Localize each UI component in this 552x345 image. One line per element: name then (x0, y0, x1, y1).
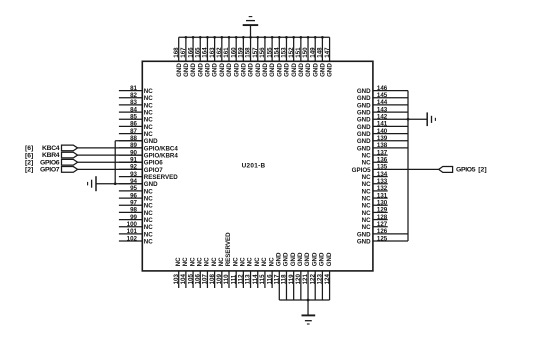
svg-text:GND: GND (190, 63, 197, 77)
wire: GPIO6 to pin 91 (78, 161, 143, 163)
junction on top bus at pin 164 (206, 36, 209, 39)
svg-text:GPIO6: GPIO6 (144, 160, 163, 167)
svg-text:148: 148 (317, 47, 324, 58)
svg-text:113: 113 (245, 274, 252, 285)
svg-text:GND: GND (205, 63, 212, 77)
svg-text:GND: GND (357, 231, 371, 238)
svg-text:160: 160 (230, 47, 237, 58)
svg-text:85: 85 (130, 114, 137, 121)
svg-text:NC: NC (175, 257, 182, 266)
svg-text:123: 123 (317, 274, 324, 285)
pin 84 (NC) left (119, 106, 153, 116)
svg-text:KBC4: KBC4 (42, 145, 60, 152)
svg-text:GND: GND (357, 117, 371, 124)
svg-text:[6]: [6] (25, 152, 33, 159)
svg-text:132: 132 (377, 185, 388, 192)
pin 166 (GND) top (187, 37, 197, 77)
svg-text:GND: GND (276, 63, 283, 77)
svg-text:165: 165 (194, 47, 201, 58)
pin 167 (GND) top (180, 37, 190, 77)
svg-text:108: 108 (209, 274, 216, 285)
svg-text:87: 87 (130, 128, 137, 135)
svg-text:120: 120 (295, 274, 302, 285)
svg-text:140: 140 (377, 128, 388, 135)
svg-text:GND: GND (319, 252, 326, 266)
pin 152 (GND) top (288, 37, 298, 77)
svg-text:124: 124 (324, 274, 331, 285)
pin 96 (NC) left (119, 192, 153, 202)
svg-text:95: 95 (130, 185, 137, 192)
svg-text:NC: NC (144, 95, 153, 102)
wire: top GND bus (179, 36, 330, 38)
svg-text:146: 146 (377, 85, 388, 92)
svg-text:125: 125 (377, 235, 388, 242)
wire: right bus to ground (408, 118, 427, 120)
pin 139 (GND) right (357, 135, 408, 145)
pin 116 (NC) bottom (266, 257, 275, 288)
off-page connector KBR4 (62, 152, 78, 158)
junction on top bus at pin 160 (235, 36, 238, 39)
pin 155 (GND) top (266, 37, 276, 77)
pin 126 (GND) right (357, 228, 408, 238)
pin 108 (NC) bottom (209, 257, 218, 288)
svg-text:GND: GND (262, 63, 269, 77)
pin 130 (NC) right (362, 200, 388, 210)
svg-text:GND: GND (290, 252, 297, 266)
pin 107 (NC) bottom (202, 257, 211, 288)
wire: KBR4 to pin 90 (78, 154, 143, 156)
svg-text:U201-B: U201-B (242, 163, 266, 170)
pin 115 (NC) bottom (259, 257, 268, 288)
svg-text:NC: NC (144, 203, 153, 210)
pin 159 (GND) top (238, 37, 248, 77)
svg-text:82: 82 (130, 92, 137, 99)
svg-text:GND: GND (320, 63, 327, 77)
svg-text:159: 159 (238, 47, 245, 58)
svg-text:GND: GND (284, 63, 291, 77)
pin 111 (NC) bottom (230, 257, 239, 288)
svg-text:GND: GND (183, 63, 190, 77)
pin 147 (GND) top (324, 37, 334, 77)
wire: KBC4 to pin 89 (78, 147, 143, 149)
svg-text:157: 157 (252, 47, 259, 58)
svg-text:156: 156 (259, 47, 266, 58)
svg-text:104: 104 (180, 274, 187, 285)
pin 168 (GND) top (173, 37, 183, 77)
pin 97 (NC) left (119, 200, 153, 210)
svg-text:GND: GND (144, 181, 158, 188)
svg-text:NC: NC (362, 203, 371, 210)
svg-text:GPIO5: GPIO5 (352, 167, 371, 174)
IC U201-B body (142, 61, 373, 271)
svg-text:GND: GND (357, 138, 371, 145)
svg-text:GPIO/KBC4: GPIO/KBC4 (144, 145, 179, 152)
pin 140 (GND) right (357, 128, 408, 138)
svg-text:111: 111 (230, 274, 237, 284)
off-page connector GPIO6 (62, 159, 78, 165)
pin 90 (GPIO/KBR4) left (119, 149, 178, 159)
svg-text:NC: NC (362, 160, 371, 167)
svg-text:GND: GND (357, 109, 371, 116)
svg-text:GND: GND (275, 252, 282, 266)
junction on top bus at pin 152 (292, 36, 295, 39)
svg-text:GND: GND (357, 95, 371, 102)
svg-text:127: 127 (377, 221, 388, 228)
svg-text:83: 83 (130, 99, 137, 106)
svg-text:GND: GND (304, 252, 311, 266)
svg-text:NC: NC (144, 102, 153, 109)
svg-text:NC: NC (144, 117, 153, 124)
svg-text:NC: NC (182, 257, 189, 266)
svg-text:RESERVED: RESERVED (225, 232, 232, 266)
junction on top bus at pin 167 (185, 36, 188, 39)
svg-text:NC: NC (261, 257, 268, 266)
svg-text:NC: NC (144, 109, 153, 116)
pin 143 (GND) right (357, 106, 408, 116)
junction on top bus at pin 151 (299, 36, 302, 39)
svg-text:118: 118 (281, 274, 288, 285)
svg-text:155: 155 (266, 47, 273, 58)
pin 94 (GND) left (119, 178, 158, 188)
svg-text:NC: NC (362, 210, 371, 217)
pin 99 (NC) left (119, 214, 153, 224)
pin 127 (NC) right (362, 221, 388, 231)
junction on top bus at pin 162 (220, 36, 223, 39)
svg-text:GND: GND (269, 63, 276, 77)
svg-text:NC: NC (254, 257, 261, 266)
pin 81 (NC) left (119, 85, 153, 95)
svg-text:GND: GND (357, 88, 371, 95)
svg-text:164: 164 (202, 47, 209, 58)
svg-text:GND: GND (312, 63, 319, 77)
pin 164 (GND) top (202, 37, 212, 77)
svg-text:100: 100 (127, 221, 138, 228)
svg-text:138: 138 (377, 142, 388, 149)
svg-text:105: 105 (187, 274, 194, 285)
svg-text:GND: GND (327, 63, 334, 77)
svg-text:NC: NC (362, 217, 371, 224)
svg-text:GND: GND (311, 252, 318, 266)
svg-text:GPIO7: GPIO7 (144, 167, 163, 174)
svg-text:110: 110 (223, 274, 230, 285)
svg-text:GND: GND (197, 63, 204, 77)
svg-text:GND: GND (357, 145, 371, 152)
pin 91 (GPIO6) left (119, 157, 163, 167)
svg-text:114: 114 (252, 274, 259, 285)
pin 114 (NC) bottom (252, 257, 261, 288)
svg-text:98: 98 (130, 207, 137, 214)
svg-text:[2]: [2] (478, 167, 486, 174)
pin 87 (NC) left (119, 128, 153, 138)
svg-text:163: 163 (209, 47, 216, 58)
svg-text:154: 154 (273, 47, 280, 58)
pin 120 (GND) bottom (295, 252, 304, 300)
svg-text:NC: NC (144, 131, 153, 138)
svg-text:GND: GND (357, 131, 371, 138)
svg-text:NC: NC (362, 224, 371, 231)
svg-text:NC: NC (232, 257, 239, 266)
svg-text:GND: GND (226, 63, 233, 77)
svg-text:101: 101 (127, 228, 138, 235)
svg-text:93: 93 (130, 171, 137, 178)
svg-text:139: 139 (377, 135, 388, 142)
svg-text:[2]: [2] (25, 167, 33, 174)
pin 102 (NC) left (119, 235, 153, 245)
svg-text:GND: GND (212, 63, 219, 77)
junction on top bus at pin 165 (199, 36, 202, 39)
svg-text:136: 136 (377, 157, 388, 164)
svg-text:[6]: [6] (25, 145, 33, 152)
pin 121 (GND) bottom (302, 252, 311, 300)
svg-text:GND: GND (326, 252, 333, 266)
svg-text:116: 116 (266, 274, 273, 285)
svg-text:145: 145 (377, 92, 388, 99)
svg-text:97: 97 (130, 200, 137, 207)
junction on top bus at pin 149 (314, 36, 317, 39)
off-page connector KBC4 (62, 145, 78, 151)
svg-text:GPIO7: GPIO7 (40, 166, 60, 173)
svg-text:NC: NC (240, 257, 247, 266)
svg-text:NC: NC (362, 174, 371, 181)
junction at bottom bus ground drop (307, 299, 310, 302)
svg-text:GND: GND (357, 102, 371, 109)
svg-text:GND: GND (357, 238, 371, 245)
svg-text:GND: GND (283, 252, 290, 266)
pin 146 (GND) right (357, 85, 408, 95)
svg-text:GND: GND (219, 63, 226, 77)
svg-text:167: 167 (180, 47, 187, 58)
junction on top bus at pin 148 (321, 36, 324, 39)
junction on top bus at pin 159 (242, 36, 245, 39)
pin 112 (NC) bottom (238, 257, 247, 288)
svg-text:NC: NC (196, 257, 203, 266)
svg-text:NC: NC (144, 188, 153, 195)
svg-text:NC: NC (144, 210, 153, 217)
pin 104 (NC) bottom (180, 257, 189, 288)
pin 98 (NC) left (119, 207, 153, 217)
svg-text:131: 131 (377, 192, 388, 199)
svg-text:NC: NC (247, 257, 254, 266)
svg-text:[2]: [2] (25, 159, 33, 166)
pin 93 (RESERVED) left (119, 171, 178, 181)
svg-text:158: 158 (245, 47, 252, 58)
pin 110 (RESERVED) bottom (223, 232, 232, 288)
pin 89 (GPIO/KBC4) left (119, 142, 178, 152)
pin 137 (NC) right (362, 149, 388, 159)
pin 103 (NC) bottom (173, 257, 182, 288)
pin 119 (GND) bottom (288, 252, 297, 300)
pin 129 (NC) right (362, 207, 388, 217)
svg-text:129: 129 (377, 207, 388, 214)
svg-text:150: 150 (302, 47, 309, 58)
svg-text:152: 152 (288, 47, 295, 58)
svg-text:GND: GND (357, 124, 371, 131)
pin 100 (NC) left (119, 221, 153, 231)
pin 136 (NC) right (362, 157, 388, 167)
pin 138 (GND) right (357, 142, 408, 152)
svg-text:103: 103 (173, 274, 180, 285)
junction on top bus at pin 150 (307, 36, 310, 39)
svg-text:133: 133 (377, 178, 388, 185)
svg-text:141: 141 (377, 121, 388, 128)
wire: pin 135 to GPIO5 connector (373, 168, 439, 170)
junction at left GND node (114, 182, 117, 185)
pin 105 (NC) bottom (187, 257, 196, 288)
junction on top bus at pin 157 (256, 36, 259, 39)
pin 106 (NC) bottom (194, 257, 203, 288)
pin 85 (NC) left (119, 114, 153, 124)
svg-text:119: 119 (288, 274, 295, 285)
pin 156 (GND) top (259, 37, 269, 77)
wire: top bus to ground (250, 25, 252, 37)
pin 150 (GND) top (302, 37, 312, 77)
svg-text:147: 147 (324, 47, 331, 58)
svg-text:GND: GND (255, 63, 262, 77)
svg-text:NC: NC (144, 231, 153, 238)
pin 148 (GND) top (317, 37, 327, 77)
pin 123 (GND) bottom (317, 252, 326, 300)
pin 113 (NC) bottom (245, 257, 254, 288)
junction on top bus at pin 158 (249, 36, 252, 39)
svg-text:NC: NC (144, 195, 153, 202)
pin 162 (GND) top (216, 37, 226, 77)
svg-text:168: 168 (173, 47, 180, 58)
svg-text:GND: GND (248, 63, 255, 77)
svg-text:88: 88 (130, 135, 137, 142)
pin 95 (NC) left (119, 185, 153, 195)
svg-text:142: 142 (377, 114, 388, 121)
pin 144 (GND) right (357, 99, 408, 109)
svg-text:GND: GND (240, 63, 247, 77)
off-page connector GPIO5 (439, 166, 453, 172)
wire: ground to pin 94 (96, 183, 142, 185)
svg-text:117: 117 (273, 274, 280, 285)
ground (right) (427, 112, 435, 126)
svg-text:GND: GND (233, 63, 240, 77)
svg-text:KBR4: KBR4 (42, 152, 60, 159)
svg-text:NC: NC (144, 217, 153, 224)
svg-text:NC: NC (218, 257, 225, 266)
svg-text:115: 115 (259, 274, 266, 285)
pin 92 (GPIO7) left (119, 164, 163, 174)
svg-text:RESERVED: RESERVED (144, 174, 178, 181)
svg-text:112: 112 (238, 274, 245, 285)
svg-text:106: 106 (194, 274, 201, 285)
ground (top) (243, 17, 259, 26)
pin 158 (GND) top (245, 37, 255, 77)
pin 124 (GND) bottom (324, 252, 333, 300)
wire: GPIO7 to pin 92 (78, 168, 143, 170)
svg-text:NC: NC (362, 195, 371, 202)
svg-text:122: 122 (309, 274, 316, 285)
svg-text:102: 102 (127, 235, 138, 242)
junction at right bus ground tap (407, 118, 410, 121)
svg-text:GND: GND (176, 63, 183, 77)
pin 157 (GND) top (252, 37, 262, 77)
junction on top bus at pin 155 (271, 36, 274, 39)
wire: pin 88 GND to vertical link (115, 140, 142, 142)
pin 118 (GND) bottom (281, 252, 290, 300)
pin 122 (GND) bottom (309, 252, 318, 300)
svg-text:166: 166 (187, 47, 194, 58)
pin 83 (NC) left (119, 99, 153, 109)
wire: bottom bus to ground (307, 300, 309, 315)
pin 82 (NC) left (119, 92, 153, 102)
pin 109 (NC) bottom (216, 257, 225, 288)
pin 88 (GND) left (119, 135, 158, 145)
svg-text:137: 137 (377, 149, 388, 156)
wire: vertical GND link (pin 88 to pin 94) (114, 141, 116, 184)
svg-text:161: 161 (223, 47, 230, 58)
svg-text:128: 128 (377, 214, 388, 221)
pin 131 (NC) right (362, 192, 388, 202)
pin 132 (NC) right (362, 185, 388, 195)
pin 161 (GND) top (223, 37, 233, 77)
svg-text:144: 144 (377, 99, 388, 106)
junction on top bus at pin 153 (285, 36, 288, 39)
svg-text:NC: NC (362, 188, 371, 195)
svg-text:153: 153 (281, 47, 288, 58)
svg-text:151: 151 (295, 47, 302, 58)
svg-text:121: 121 (302, 274, 309, 285)
svg-text:GPIO5: GPIO5 (456, 166, 476, 173)
svg-text:NC: NC (362, 181, 371, 188)
svg-text:NC: NC (362, 152, 371, 159)
pin 142 (GND) right (357, 114, 408, 124)
pin 151 (GND) top (295, 37, 305, 77)
pin 117 (GND) bottom (273, 252, 282, 300)
pin 125 (GND) right (357, 235, 408, 245)
svg-text:162: 162 (216, 47, 223, 58)
pin 128 (NC) right (362, 214, 388, 224)
svg-text:107: 107 (202, 274, 209, 285)
pin 153 (GND) top (281, 37, 291, 77)
ground (left) (88, 176, 96, 191)
svg-text:81: 81 (130, 85, 137, 92)
junction on top bus at pin 163 (213, 36, 216, 39)
wire: bottom GND bus (279, 299, 329, 301)
wire: right GND bus (407, 91, 409, 241)
pin 149 (GND) top (309, 37, 319, 77)
svg-text:NC: NC (144, 224, 153, 231)
ground (bottom) (302, 315, 316, 324)
svg-text:96: 96 (130, 192, 137, 199)
svg-text:GPIO/KBR4: GPIO/KBR4 (144, 152, 179, 159)
svg-text:NC: NC (211, 257, 218, 266)
svg-text:GND: GND (305, 63, 312, 77)
svg-text:NC: NC (268, 257, 275, 266)
svg-text:NC: NC (144, 238, 153, 245)
svg-text:GND: GND (144, 138, 158, 145)
pin 133 (NC) right (362, 178, 388, 188)
junction on top bus at pin 166 (192, 36, 195, 39)
pin 165 (GND) top (194, 37, 204, 77)
svg-text:130: 130 (377, 200, 388, 207)
pin 135 (GPIO5) right (352, 164, 388, 174)
svg-text:126: 126 (377, 228, 388, 235)
svg-text:99: 99 (130, 214, 137, 221)
svg-text:GND: GND (298, 63, 305, 77)
svg-text:GND: GND (297, 252, 304, 266)
pin 154 (GND) top (273, 37, 283, 77)
pin 86 (NC) left (119, 121, 153, 131)
svg-text:GPIO6: GPIO6 (40, 159, 60, 166)
svg-text:NC: NC (144, 124, 153, 131)
pin 141 (GND) right (357, 121, 408, 131)
svg-text:NC: NC (144, 88, 153, 95)
svg-text:86: 86 (130, 121, 137, 128)
pin 163 (GND) top (209, 37, 219, 77)
